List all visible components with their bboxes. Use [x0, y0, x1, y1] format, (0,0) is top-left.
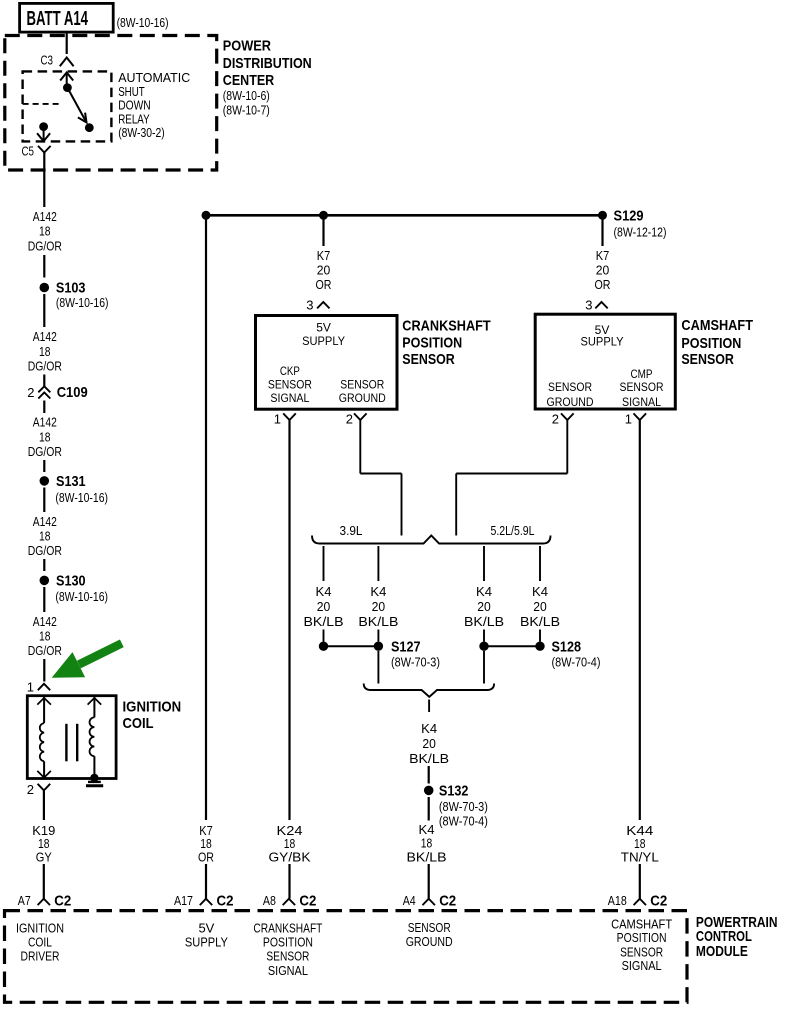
splice S103 dot: [40, 283, 50, 293]
connector A8 C2 symbol: [283, 899, 295, 905]
svg-text:A18: A18: [608, 893, 627, 908]
svg-text:1: 1: [27, 679, 34, 694]
svg-text:K4: K4: [532, 584, 548, 599]
wire S127 down to gather brace: [377, 651, 379, 684]
bus junction dot left: [202, 211, 211, 220]
svg-text:A7: A7: [18, 893, 31, 908]
wire to PCM A17: [205, 864, 207, 899]
svg-text:S127: S127: [391, 639, 421, 656]
wire A142 below C5: [43, 153, 45, 208]
svg-text:18: 18: [39, 529, 51, 544]
svg-text:CENTER: CENTER: [223, 72, 275, 89]
svg-text:K7: K7: [596, 248, 610, 263]
svg-text:A17: A17: [174, 893, 193, 908]
svg-text:(8W-70-4): (8W-70-4): [552, 654, 601, 669]
svg-text:3.9L: 3.9L: [340, 523, 363, 538]
svg-text:20: 20: [372, 599, 386, 614]
svg-text:K7: K7: [317, 248, 331, 263]
svg-text:(8W-70-4): (8W-70-4): [439, 813, 488, 828]
wire to PCM A8: [288, 864, 290, 899]
svg-text:20: 20: [596, 263, 610, 278]
svg-text:5.2L/5.9L: 5.2L/5.9L: [491, 523, 535, 538]
svg-text:S103: S103: [56, 280, 86, 297]
svg-text:C109: C109: [57, 384, 88, 401]
gather brace (bottom): [364, 684, 494, 697]
wire coil pin2 down: [43, 790, 45, 820]
svg-text:SUPPLY: SUPPLY: [185, 934, 228, 949]
svg-text:S129: S129: [614, 208, 644, 225]
connector A4 C2 symbol: [423, 899, 435, 905]
svg-text:A4: A4: [403, 893, 416, 908]
svg-text:DISTRIBUTION: DISTRIBUTION: [223, 55, 312, 72]
svg-text:SENSOR: SENSOR: [620, 380, 664, 394]
svg-text:COIL: COIL: [123, 715, 154, 732]
svg-text:CAMSHAFT: CAMSHAFT: [681, 317, 753, 334]
splice S129 dot: [598, 211, 607, 220]
relay fixed contact arrow (up): [66, 73, 68, 88]
splice S127 dots and tie line: [319, 642, 328, 651]
wire to PCM A4: [428, 864, 430, 899]
wire: [43, 460, 45, 472]
power distribution center dashed box: [5, 36, 217, 171]
connector A18 C2 symbol: [634, 899, 646, 905]
svg-text:20: 20: [422, 736, 436, 751]
svg-text:BK/LB: BK/LB: [304, 614, 344, 629]
svg-text:18: 18: [39, 629, 51, 644]
wire: [43, 255, 45, 278]
wire CKP sensor ground routing: [359, 420, 361, 474]
svg-text:IGNITION: IGNITION: [123, 698, 182, 715]
connector A7 C2 symbol: [38, 899, 50, 905]
svg-text:(8W-10-16): (8W-10-16): [56, 295, 109, 310]
svg-text:K4: K4: [370, 584, 386, 599]
svg-text:S130: S130: [56, 573, 86, 590]
svg-text:(8W-70-3): (8W-70-3): [391, 654, 440, 669]
wire to PCM A7: [43, 864, 45, 899]
svg-text:BK/LB: BK/LB: [358, 614, 398, 629]
svg-text:SIGNAL: SIGNAL: [622, 395, 661, 409]
svg-text:2: 2: [27, 385, 34, 400]
relay arm terminal dot: [85, 123, 94, 132]
pin 3 connector CMP: [595, 302, 607, 308]
pin 2 connector symbol: [38, 784, 51, 791]
svg-text:K4: K4: [476, 584, 492, 599]
svg-text:C3: C3: [41, 54, 54, 68]
svg-text:C5: C5: [22, 144, 35, 158]
wire: [43, 401, 45, 414]
svg-text:BK/LB: BK/LB: [520, 614, 560, 629]
wire: [43, 587, 45, 612]
wire S128 down to gather brace: [483, 651, 485, 684]
ground branch wire 2: [377, 546, 379, 581]
svg-text:(8W-10-16): (8W-10-16): [55, 589, 108, 604]
svg-text:GY/BK: GY/BK: [269, 850, 311, 865]
svg-text:SUPPLY: SUPPLY: [302, 334, 345, 348]
svg-text:CKP: CKP: [280, 364, 300, 378]
wire CKP signal down (K24 18 GY/BK): [288, 420, 290, 820]
svg-text:2: 2: [27, 782, 34, 797]
svg-text:SENSOR: SENSOR: [681, 351, 734, 368]
CKP pin 1 connector: [283, 413, 296, 420]
svg-text:(8W-10-7): (8W-10-7): [223, 103, 270, 118]
svg-text:2: 2: [552, 411, 559, 426]
svg-text:20: 20: [317, 599, 331, 614]
relay output arrow (down): [43, 127, 45, 142]
splice S132 dot: [424, 786, 434, 796]
wire: [43, 294, 45, 327]
svg-text:SENSOR: SENSOR: [266, 949, 309, 964]
svg-text:20: 20: [477, 599, 491, 614]
connector C5 symbol: [38, 146, 51, 153]
svg-text:A142: A142: [33, 415, 57, 430]
svg-text:CRANKSHAFT: CRANKSHAFT: [402, 317, 490, 334]
CMP pin 1 connector: [634, 413, 647, 420]
svg-text:GROUND: GROUND: [547, 395, 594, 409]
automatic shut down relay inner dashed box: [23, 71, 112, 141]
pin 1 connector symbol: [38, 684, 50, 690]
relay mechanical link dashed line: [23, 103, 60, 105]
wire CMP sensor ground routing: [566, 420, 568, 474]
svg-text:COIL: COIL: [28, 934, 52, 949]
svg-text:TN/YL: TN/YL: [621, 850, 659, 865]
wire: [43, 659, 45, 682]
ground branch wire 3: [483, 546, 485, 581]
svg-text:CMP: CMP: [631, 367, 653, 381]
svg-text:18: 18: [39, 224, 51, 239]
svg-text:(8W-10-6): (8W-10-6): [223, 88, 270, 103]
svg-text:POSITION: POSITION: [263, 934, 313, 949]
svg-text:SUPPLY: SUPPLY: [581, 335, 624, 349]
ignition coil primary winding: [43, 697, 45, 723]
svg-text:1: 1: [625, 411, 632, 426]
svg-text:S128: S128: [552, 639, 582, 656]
wire: [43, 488, 45, 513]
camshaft position sensor box: [535, 314, 675, 409]
svg-text:(8W-70-3): (8W-70-3): [439, 799, 488, 814]
svg-text:DG/OR: DG/OR: [28, 444, 62, 459]
wire: [428, 766, 430, 784]
svg-text:SIGNAL: SIGNAL: [622, 958, 662, 973]
splice S130 dot: [40, 576, 50, 586]
svg-text:DG/OR: DG/OR: [28, 543, 62, 558]
svg-text:OR: OR: [198, 850, 214, 865]
relay arm arrowhead barbs: [78, 113, 87, 123]
svg-text:SIGNAL: SIGNAL: [270, 391, 309, 405]
svg-text:BK/LB: BK/LB: [464, 614, 504, 629]
svg-text:RELAY: RELAY: [118, 113, 150, 127]
svg-text:DG/OR: DG/OR: [28, 238, 62, 253]
svg-text:K4: K4: [316, 584, 332, 599]
wire: [428, 797, 430, 821]
svg-text:(8W-10-16): (8W-10-16): [117, 15, 169, 30]
ignition coil core lines: [65, 724, 67, 762]
wire: [377, 630, 379, 642]
svg-text:A8: A8: [263, 893, 276, 908]
svg-text:A142: A142: [33, 209, 57, 224]
relay movable arm: [67, 88, 86, 123]
wire: [483, 630, 485, 642]
ignition coil box: [27, 696, 116, 779]
CKP pin 2 connector: [354, 413, 367, 420]
svg-text:S131: S131: [56, 473, 86, 490]
svg-text:POWER: POWER: [223, 37, 271, 54]
crankshaft position sensor box: [256, 316, 398, 410]
svg-text:POSITION: POSITION: [681, 335, 741, 352]
wire: [43, 375, 45, 387]
svg-text:20: 20: [533, 599, 547, 614]
svg-text:18: 18: [39, 429, 51, 444]
wire CMP signal down (K44 18 TN/YL): [639, 420, 641, 820]
ground branch wire 4: [539, 546, 541, 581]
svg-text:DOWN: DOWN: [118, 99, 151, 113]
wire S129 to CMP pin3: [601, 219, 603, 246]
svg-text:C2: C2: [299, 893, 316, 910]
svg-text:GROUND: GROUND: [406, 934, 453, 949]
powertrain control module dashed box: [5, 911, 688, 1003]
svg-text:S132: S132: [439, 783, 469, 800]
connector C109 symbol (mated pair): [38, 386, 50, 392]
svg-text:SENSOR: SENSOR: [268, 378, 312, 392]
wire bus to CKP pin3: [322, 219, 324, 246]
svg-text:BK/LB: BK/LB: [409, 751, 449, 766]
green pointer arrow: [77, 640, 124, 669]
svg-text:K4: K4: [421, 721, 437, 736]
svg-text:SENSOR: SENSOR: [402, 351, 455, 368]
CMP pin 2 connector: [561, 413, 574, 420]
svg-text:SENSOR: SENSOR: [340, 378, 384, 392]
ignition coil secondary winding: [93, 697, 95, 717]
svg-text:A142: A142: [33, 329, 57, 344]
secondary to case junction dot: [90, 774, 98, 782]
svg-text:POSITION: POSITION: [402, 335, 462, 352]
svg-text:SIGNAL: SIGNAL: [268, 963, 308, 978]
svg-text:18: 18: [39, 344, 51, 359]
svg-text:C2: C2: [439, 893, 456, 910]
connector A17 C2 symbol: [200, 899, 212, 905]
svg-text:(8W-30-2): (8W-30-2): [118, 126, 165, 140]
5V supply bus wire: [206, 214, 603, 217]
svg-text:3: 3: [585, 297, 592, 312]
svg-text:2: 2: [346, 411, 353, 426]
svg-text:C2: C2: [217, 893, 234, 910]
wire: [323, 630, 325, 642]
svg-text:(8W-12-12): (8W-12-12): [614, 225, 667, 240]
wire brace to K4 label: [428, 700, 430, 713]
svg-text:GY: GY: [36, 850, 52, 865]
svg-text:18: 18: [421, 836, 433, 851]
pin 3 connector CKP: [317, 302, 329, 308]
relay output contact dot: [39, 122, 48, 131]
ground branch wire 1: [323, 546, 325, 581]
splice S128 dots and tie line: [479, 642, 488, 651]
battery feed box BATT A14: [20, 3, 114, 32]
relay common pivot dot: [63, 83, 72, 92]
svg-text:AUTOMATIC: AUTOMATIC: [118, 71, 190, 85]
svg-text:(8W-10-16): (8W-10-16): [55, 490, 108, 505]
wire: [539, 630, 541, 642]
wire: [43, 559, 45, 571]
svg-text:A142: A142: [33, 514, 57, 529]
svg-text:5V: 5V: [316, 320, 331, 334]
svg-text:DG/OR: DG/OR: [28, 359, 62, 374]
svg-text:C2: C2: [54, 893, 71, 910]
wire to PCM A18: [639, 864, 641, 899]
svg-text:POSITION: POSITION: [617, 930, 667, 945]
splice S131 dot: [40, 476, 50, 486]
svg-text:GROUND: GROUND: [339, 391, 386, 405]
svg-text:1: 1: [274, 411, 281, 426]
svg-text:DRIVER: DRIVER: [21, 949, 60, 964]
svg-text:OR: OR: [595, 277, 611, 292]
svg-text:SHUT: SHUT: [118, 85, 145, 99]
svg-text:DG/OR: DG/OR: [28, 643, 62, 658]
wire BATT A14 to connector C3: [66, 32, 68, 54]
svg-text:BK/LB: BK/LB: [407, 849, 447, 864]
svg-text:OR: OR: [316, 277, 332, 292]
engine variant brace (top): [312, 536, 551, 544]
svg-text:MODULE: MODULE: [696, 943, 748, 960]
svg-text:A142: A142: [33, 614, 57, 629]
svg-text:SENSOR: SENSOR: [548, 380, 592, 394]
wire bus down to PCM A17 (K7 18 OR): [205, 219, 207, 820]
connector C3 symbol: [60, 58, 74, 67]
ground symbol: [88, 781, 101, 783]
bus junction dot middle: [319, 211, 328, 220]
svg-text:3: 3: [306, 297, 313, 312]
svg-text:C2: C2: [650, 893, 667, 910]
svg-text:20: 20: [317, 263, 331, 278]
svg-text:BATT A14: BATT A14: [27, 8, 89, 30]
